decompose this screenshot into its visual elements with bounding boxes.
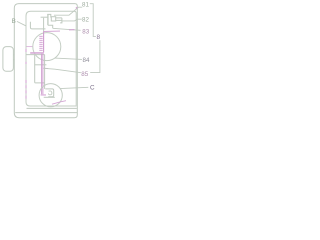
- tube left wall: [35, 55, 45, 83]
- outer shell B: [14, 4, 77, 118]
- pink dashed wall highlight: [25, 80, 27, 100]
- leader C: [60, 87, 88, 88]
- tube right wall: [44, 55, 46, 89]
- plunger cap: [47, 14, 51, 17]
- tab connector top: [13, 54, 14, 56]
- valve curl: [48, 91, 51, 95]
- svg-text:C: C: [90, 84, 95, 91]
- leader 83 pink segment: [44, 30, 60, 32]
- pump rod upper: [43, 18, 45, 32]
- pink junction dot: [76, 7, 78, 8]
- tab connector bottom: [13, 59, 14, 61]
- spring coils (pink): [39, 36, 42, 50]
- shelf line: [26, 54, 45, 56]
- brace 85 to 8: [90, 40, 100, 72]
- plunger bar: [47, 15, 49, 26]
- left tab: [3, 47, 14, 72]
- spring right rod (pink): [43, 32, 45, 53]
- svg-text:84: 84: [83, 57, 90, 64]
- nozzle tube: [56, 18, 62, 23]
- valve box: [51, 17, 55, 21]
- leader 84: [55, 58, 82, 59]
- base line 2: [15, 112, 77, 114]
- svg-text:8: 8: [97, 34, 101, 41]
- piston rod (pink): [42, 54, 43, 94]
- piston foot (pink): [41, 94, 46, 95]
- pink tick at wall: [26, 46, 32, 48]
- svg-text:81: 81: [82, 2, 89, 9]
- detail circle upper: [33, 33, 61, 61]
- base line 1: [27, 107, 77, 109]
- detail circle lower: [39, 84, 62, 107]
- leader 82: [62, 19, 82, 21]
- tube flange: [34, 64, 46, 66]
- leader 83: [53, 28, 81, 30]
- svg-text:82: 82: [82, 17, 89, 24]
- valve housing: [45, 89, 53, 97]
- svg-text:83: 83: [82, 29, 89, 36]
- pump body lower: [48, 25, 53, 28]
- pink wall dash upper: [25, 49, 27, 64]
- spring base bar (pink): [30, 52, 44, 54]
- brace 81 to 8: [90, 4, 96, 37]
- pink tick at leader 85 root: [44, 67, 49, 69]
- leader 85: [44, 68, 81, 72]
- pink blotch on leader 83: [69, 29, 75, 31]
- pink seam diagonal: [52, 101, 66, 105]
- svg-text:B: B: [12, 18, 16, 25]
- neck wall L: [30, 22, 45, 29]
- valve housing base: [44, 96, 55, 98]
- leader 81: [54, 7, 82, 15]
- inner vessel: [26, 11, 76, 106]
- pump lever: [41, 16, 48, 18]
- leader B: [17, 21, 26, 25]
- svg-text:85: 85: [81, 71, 88, 78]
